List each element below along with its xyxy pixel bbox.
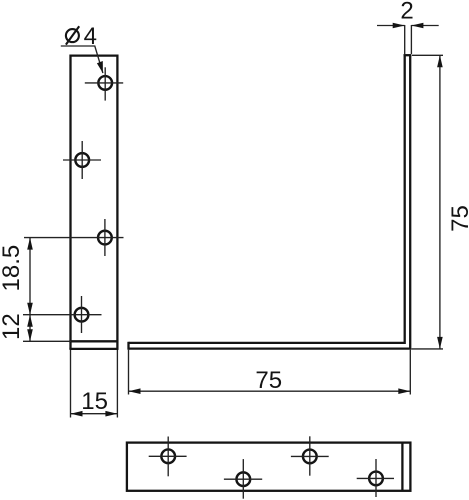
svg-text:75: 75 [255, 367, 282, 394]
svg-text:75: 75 [447, 205, 469, 232]
svg-text:18.5: 18.5 [0, 245, 25, 292]
svg-text:2: 2 [400, 0, 413, 25]
svg-text:4: 4 [84, 23, 97, 50]
svg-text:15: 15 [81, 388, 108, 415]
svg-text:12: 12 [0, 313, 25, 340]
